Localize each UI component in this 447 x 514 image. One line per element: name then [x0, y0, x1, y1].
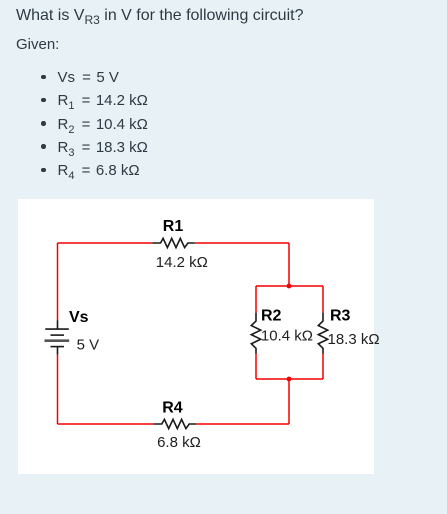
resistor R3: [318, 313, 327, 354]
resistor R2: [251, 313, 260, 354]
svg-text:R4: R4: [162, 399, 183, 416]
wire: bottom right horizontal from R4 to right corner: [196, 423, 289, 425]
wire: box right red stubs: [322, 286, 324, 379]
wire: left vertical upper (top corner to battery): [57, 243, 59, 321]
wire: parallel box top: [256, 285, 323, 287]
wire: top right horizontal from R1 to right corner: [195, 242, 289, 244]
wire: bottom left horizontal to R4: [58, 423, 154, 425]
svg-text:10.4 kΩ: 10.4 kΩ: [261, 327, 313, 344]
wire: box left red stubs: [255, 286, 257, 379]
resistor R4: [154, 419, 197, 428]
node junction top: [287, 284, 292, 289]
wire: right vertical upper (top corner down to box): [288, 243, 290, 286]
svg-text:Vs: Vs: [69, 309, 89, 326]
svg-text:R3: R3: [330, 307, 351, 324]
svg-text:R1: R1: [163, 218, 184, 235]
resistor R1: [152, 238, 195, 247]
svg-text:5 V: 5 V: [77, 336, 100, 353]
node junction bottom: [287, 377, 292, 382]
svg-text:18.3 kΩ: 18.3 kΩ: [328, 331, 380, 348]
svg-text:6.8 kΩ: 6.8 kΩ: [157, 434, 201, 451]
svg-text:14.2 kΩ: 14.2 kΩ: [156, 254, 208, 271]
wire: parallel box bottom: [256, 378, 323, 380]
svg-text:R2: R2: [261, 307, 282, 324]
wire: left vertical lower (battery to bottom corner): [57, 355, 59, 424]
circuit drawing panel: [18, 199, 375, 475]
battery Vs: [45, 321, 70, 355]
wire: right vertical lower (box to bottom corner): [288, 379, 290, 424]
wire: top left horizontal to R1: [58, 242, 153, 244]
